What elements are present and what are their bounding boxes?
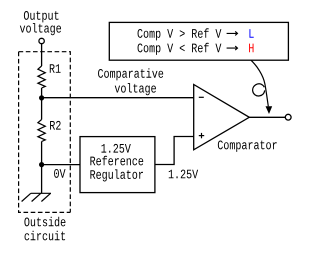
node B: 0V junction: [39, 162, 44, 167]
ground: [22, 193, 51, 201]
info line 1: Comp V > Ref V -> L: [138, 28, 254, 40]
label: Output voltage: [20, 11, 61, 35]
terminal: comparator output: [285, 114, 291, 120]
info box: [109, 22, 288, 60]
label: Comparative voltage: [98, 68, 163, 95]
outside circuit dashed box: [19, 52, 71, 213]
wire node B to regulator box: [42, 164, 80, 166]
wire R1 to R2: [41, 88, 43, 120]
info line 2: Comp V < Ref V -> H: [138, 43, 254, 55]
annotation: arrowhead: [266, 106, 273, 114]
wire comparator output: [249, 116, 285, 118]
label: 1.25V net: [169, 170, 198, 179]
wire node B to ground: [41, 165, 43, 194]
op-amp U2: comparator triangle: [194, 85, 250, 150]
annotation: curly arrow from info box to comparator output: [251, 60, 268, 106]
resistor R2: [38, 120, 61, 142]
resistor R1: [38, 64, 61, 88]
terminal: output voltage input: [39, 38, 44, 43]
label: Outside circuit: [24, 217, 65, 241]
pin: minus input: [199, 96, 204, 98]
wire regulator to comparator plus input: [155, 137, 194, 165]
label: 0V: [54, 169, 65, 178]
wire node A to comparator minus input: [42, 97, 194, 99]
pin: plus input: [199, 133, 204, 138]
wire R2 to node B: [41, 142, 43, 165]
wire terminal to R1: [41, 44, 43, 66]
label: Comparator: [218, 141, 277, 152]
regulator U1 box: [80, 137, 155, 193]
node A: comparative voltage junction: [39, 95, 44, 100]
